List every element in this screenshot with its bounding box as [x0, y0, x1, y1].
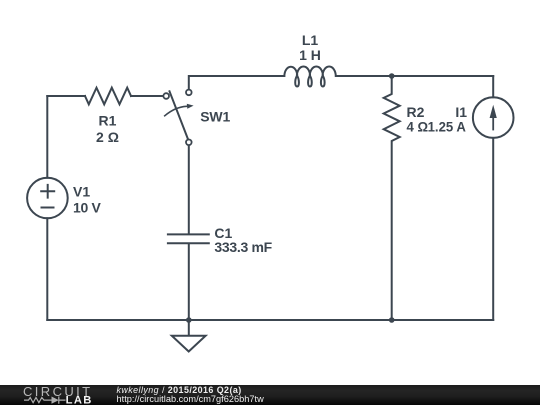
svg-text:4 Ω: 4 Ω: [407, 119, 429, 135]
svg-text:R2: R2: [407, 104, 425, 120]
svg-text:1 H: 1 H: [299, 47, 321, 63]
svg-text:1.25 A: 1.25 A: [428, 119, 466, 135]
svg-text:L1: L1: [302, 32, 319, 48]
svg-text:I1: I1: [455, 104, 467, 120]
svg-text:R1: R1: [99, 113, 117, 129]
svg-text:2 Ω: 2 Ω: [96, 129, 119, 145]
svg-text:V1: V1: [73, 183, 90, 199]
svg-text:10 V: 10 V: [73, 199, 102, 215]
svg-text:333.3 mF: 333.3 mF: [214, 239, 272, 255]
svg-text:LAB: LAB: [66, 395, 93, 405]
svg-text:SW1: SW1: [200, 109, 230, 125]
